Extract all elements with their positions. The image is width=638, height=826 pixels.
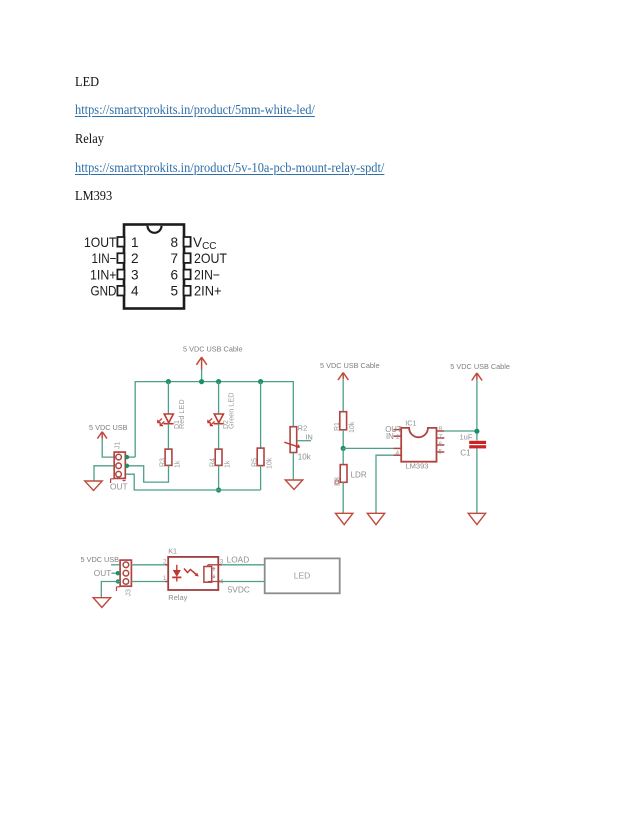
- ground symbol under LDR: [336, 513, 353, 524]
- svg-text:1IN−: 1IN−: [92, 251, 117, 266]
- resistor R4: [215, 449, 222, 465]
- svg-text:10k: 10k: [349, 421, 356, 433]
- svg-text:5 VDC USB Cable: 5 VDC USB Cable: [450, 362, 510, 371]
- svg-text:1k: 1k: [224, 460, 231, 468]
- wire J1 pin2 to ground: [94, 466, 114, 481]
- svg-text:IN: IN: [386, 432, 394, 441]
- svg-text:7: 7: [439, 434, 443, 441]
- op-amp U1 LM393 pinout body: [124, 225, 184, 309]
- junction dot supply column: [199, 379, 204, 384]
- svg-text:LED: LED: [294, 571, 311, 581]
- wire supply to J1 pin1: [102, 439, 114, 458]
- svg-text:R3: R3: [160, 458, 167, 467]
- wire junction to IC pin3: [343, 447, 393, 449]
- op-amp IC1 LM393: [393, 428, 444, 462]
- svg-text:Relay: Relay: [168, 593, 187, 602]
- junction dot C1: [474, 429, 479, 434]
- connector J3: [117, 560, 132, 591]
- wire D1 to R3: [167, 424, 169, 449]
- svg-text:6: 6: [439, 441, 443, 448]
- wire D2 to R4: [218, 424, 220, 449]
- link 5mm-white-led: [75, 103, 315, 119]
- svg-text:1OUT: 1OUT: [84, 235, 117, 250]
- svg-text:R4: R4: [210, 458, 217, 467]
- heading Relay: [75, 132, 104, 148]
- wire rail to D1: [167, 382, 169, 414]
- link relay-spdt: [75, 161, 384, 177]
- svg-text:D3: D3: [335, 477, 342, 486]
- wire OUT rail: [125, 474, 260, 490]
- svg-text:LM393: LM393: [406, 462, 429, 471]
- pin 2 stub: [117, 253, 124, 263]
- svg-text:6: 6: [170, 267, 178, 282]
- resistor R5: [257, 448, 264, 466]
- svg-text:2: 2: [131, 251, 139, 266]
- svg-text:R2: R2: [298, 424, 307, 433]
- LED D1: [158, 414, 174, 426]
- pin 5 stub: [184, 286, 191, 296]
- svg-text:2IN+: 2IN+: [194, 284, 222, 299]
- svg-text:K1: K1: [168, 547, 177, 556]
- junction dot J1 pin2: [125, 464, 129, 468]
- wire R2 to ground: [292, 453, 294, 481]
- svg-text:R1: R1: [334, 422, 341, 431]
- LDR D3: [340, 465, 347, 483]
- wire relay pin3 to LED box: [222, 564, 265, 566]
- ground symbol left of J1: [85, 481, 102, 491]
- svg-text:3: 3: [131, 267, 139, 282]
- junction dot J3 pin3: [116, 579, 120, 583]
- svg-text:LOAD: LOAD: [227, 555, 250, 565]
- svg-text:C1: C1: [460, 449, 471, 458]
- wire J3 pin1 to relay pin2: [131, 564, 165, 566]
- svg-text:4: 4: [396, 450, 400, 457]
- supply arrow 5 VDC USB (left J1): [97, 432, 107, 439]
- svg-text:OUT: OUT: [110, 482, 128, 492]
- wire J3 pin3 to relay pin1: [131, 581, 165, 583]
- pin 8 stub: [184, 237, 191, 247]
- wire supply to R1: [342, 379, 344, 411]
- capacitor C1: [469, 441, 486, 449]
- svg-text:4: 4: [131, 284, 139, 299]
- svg-text:5: 5: [439, 449, 443, 456]
- ground symbol under R2: [285, 480, 302, 490]
- ground symbol IC pin4: [367, 513, 384, 524]
- heading LED: [75, 75, 99, 91]
- resistor R3: [165, 449, 172, 465]
- wire supply to rail: [201, 370, 203, 382]
- supply arrow 5 VDC USB Cable (middle): [338, 373, 348, 381]
- svg-text:Red LED: Red LED: [177, 399, 186, 429]
- LED D2: [208, 414, 224, 426]
- relay arrow: [184, 569, 198, 576]
- junction dot OUT rail R4: [216, 487, 221, 492]
- wire R2 wiper IN stub: [297, 440, 311, 442]
- wire 5VDC to J3 pin1: [111, 564, 120, 566]
- resistor R1: [340, 412, 347, 430]
- svg-text:1: 1: [163, 575, 167, 582]
- relay K1: [165, 557, 222, 590]
- wire R1 to junction: [342, 430, 344, 449]
- junction dot R5 column: [258, 379, 263, 384]
- ground symbol under J3: [93, 598, 110, 608]
- wire R4 to OUT rail: [218, 465, 220, 490]
- junction dot D1 column: [166, 379, 171, 384]
- wire junction to LDR: [342, 448, 344, 464]
- supply arrow 5 VDC USB Cable (right): [472, 373, 482, 381]
- svg-text:8: 8: [170, 235, 178, 250]
- svg-text:IN: IN: [306, 432, 313, 441]
- svg-text:1IN+: 1IN+: [90, 267, 117, 282]
- svg-text:2OUT: 2OUT: [194, 251, 227, 266]
- svg-text:5 VDC USB Cable: 5 VDC USB Cable: [320, 361, 380, 370]
- ground symbol under C1: [468, 513, 485, 524]
- svg-text:5: 5: [170, 284, 178, 299]
- heading LM393: [75, 189, 112, 205]
- pin 4 stub: [117, 286, 124, 296]
- svg-text:J3: J3: [126, 589, 133, 597]
- svg-text:1: 1: [131, 235, 139, 250]
- relay output element: [204, 567, 212, 583]
- svg-text:Green LED: Green LED: [227, 392, 236, 429]
- svg-text:7: 7: [170, 251, 178, 266]
- wire J3 pin3 to ground: [101, 582, 120, 598]
- svg-text:IC1: IC1: [405, 419, 416, 428]
- svg-text:J1: J1: [114, 442, 121, 450]
- relay LED: [176, 565, 178, 570]
- trimmer R2: [284, 427, 299, 453]
- wire rail to D2: [218, 382, 220, 414]
- LED load box: [265, 558, 340, 593]
- svg-text:1uF: 1uF: [460, 433, 473, 442]
- svg-text:LDR: LDR: [351, 471, 367, 480]
- pin 1 stub: [117, 237, 124, 247]
- svg-text:1k: 1k: [174, 460, 181, 468]
- supply arrow 5 VDC USB Cable (left): [196, 357, 206, 369]
- pin 3 stub: [117, 270, 124, 280]
- junction dot J1 pin1: [125, 455, 129, 459]
- wire rail to J1 pin1: [125, 456, 135, 458]
- svg-text:2: 2: [163, 559, 167, 566]
- pin 6 stub: [184, 270, 191, 280]
- junction dot R1/LDR: [341, 446, 346, 451]
- wire relay pin4 to LED box: [222, 581, 265, 583]
- svg-text:OUT: OUT: [94, 568, 112, 578]
- wire R5 to OUT rail: [260, 466, 262, 490]
- connector J1: [111, 452, 126, 483]
- wire rail to R5: [260, 382, 262, 449]
- svg-text:5 VDC USB: 5 VDC USB: [89, 423, 128, 432]
- wire IC pin4 to ground: [376, 455, 393, 513]
- wire C1 to ground: [476, 448, 478, 513]
- LDR bottom marker: [335, 480, 339, 484]
- svg-text:2IN−: 2IN−: [194, 267, 220, 282]
- svg-text:10k: 10k: [298, 453, 312, 462]
- svg-text:2: 2: [396, 434, 400, 441]
- wire IC pin8 to C1 junction: [444, 430, 477, 432]
- wire OUT to J3 pin2: [111, 572, 120, 574]
- wire LDR to ground: [342, 482, 344, 513]
- pin 7 stub: [184, 253, 191, 263]
- wire R3 to J1 middle jog: [125, 465, 168, 482]
- junction dot J3 pin2: [116, 571, 120, 575]
- svg-text:5VDC: 5VDC: [228, 585, 250, 595]
- svg-text:R5: R5: [252, 458, 259, 467]
- net VCC top rail wire: [135, 382, 293, 458]
- svg-text:5 VDC USB: 5 VDC USB: [81, 555, 120, 564]
- svg-text:8: 8: [439, 426, 443, 433]
- svg-text:VCC: VCC: [193, 235, 217, 252]
- wire supply to C1: [476, 380, 478, 441]
- svg-text:10k: 10k: [266, 457, 273, 469]
- svg-text:5 VDC USB Cable: 5 VDC USB Cable: [183, 345, 243, 354]
- svg-text:GND: GND: [91, 284, 117, 299]
- junction dot D2 column: [216, 379, 221, 384]
